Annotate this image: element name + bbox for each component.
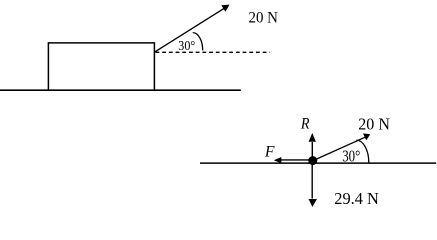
ground line (top diagram)	[0, 89, 241, 91]
box on ground	[48, 43, 154, 90]
svg-text:R: R	[300, 116, 310, 133]
particle dot	[308, 156, 317, 165]
F arrow head	[274, 157, 282, 163]
angle arc (bottom)	[356, 140, 368, 163]
surface line (bottom diagram)	[200, 162, 436, 164]
R arrow shaft	[311, 142, 313, 158]
dashed horizontal reference line (top)	[156, 51, 270, 53]
svg-text:30°: 30°	[342, 146, 360, 165]
20N arrow head (bottom)	[363, 133, 370, 140]
svg-text:20 N: 20 N	[249, 10, 279, 27]
F arrow shaft	[280, 159, 310, 161]
svg-text:29.4 N: 29.4 N	[334, 189, 379, 208]
20N arrow shaft (bottom)	[313, 137, 366, 161]
R arrow head	[309, 133, 316, 142]
svg-text:F: F	[264, 143, 275, 160]
weight arrow head	[309, 199, 318, 207]
svg-text:30°: 30°	[178, 38, 195, 53]
force arrow 20N (top) shaft	[155, 8, 225, 52]
force arrow 20N (top) head	[221, 5, 229, 12]
svg-text:20 N: 20 N	[358, 115, 390, 134]
angle arc (top)	[193, 33, 203, 51]
weight arrow shaft 29.4N	[311, 163, 313, 199]
